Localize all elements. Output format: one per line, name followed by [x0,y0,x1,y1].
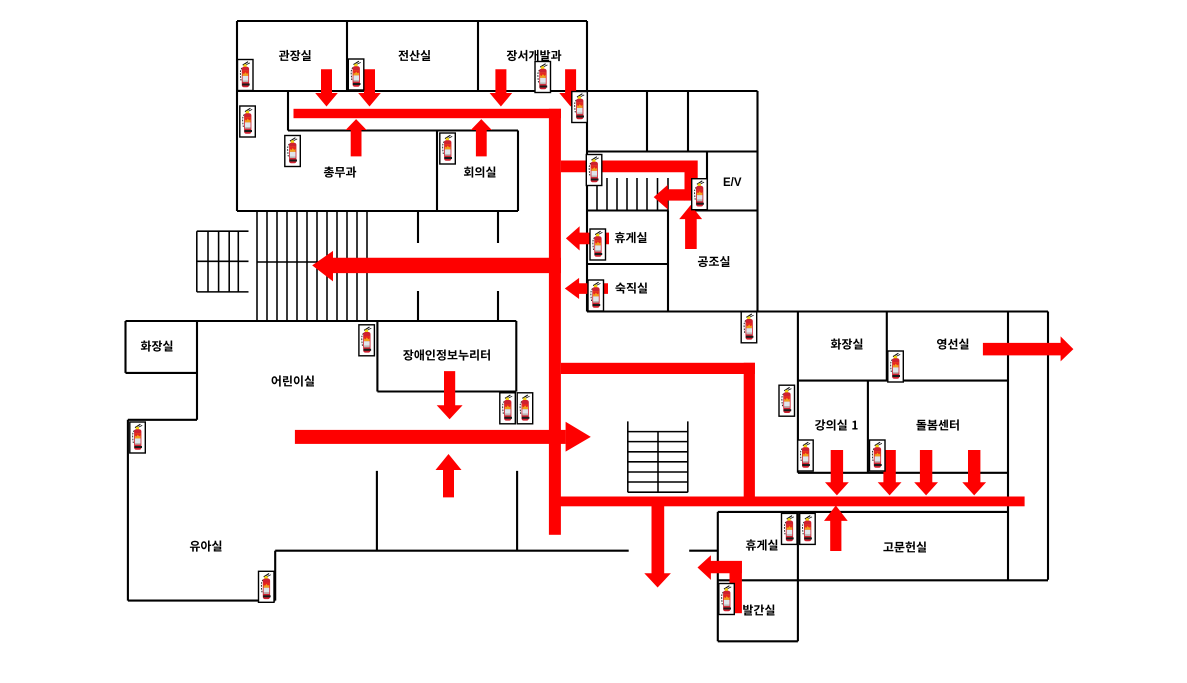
extinguisher 관장실 [238,60,254,91]
extinguisher 전산실 [348,59,364,90]
extinguisher 휴게실 E/V block [590,229,606,260]
wall: 장애인정보누리터 left edge [376,321,378,392]
arrow up from 공조실 to E/V [679,205,702,249]
wall: 화장실 right edge x=197 [196,321,198,420]
extinguisher 숙직실 [588,280,604,311]
arrow down from 장애인정보누리터 [437,371,463,419]
route: upper-right branch bar [561,363,755,374]
route: E/V corridor bar with down leg [561,161,698,201]
route: top corridor bar [294,109,562,118]
arrow down from 장서개발과 right [559,69,582,106]
route: right branch down leg [744,363,755,506]
arrow down from 관장실 [315,69,338,106]
arrow down central exit [644,506,671,588]
extinguisher 총무과 [285,136,301,167]
room label 총무과 [324,166,356,177]
extinguisher 유아실 west [130,422,146,453]
wall: 휴게실/공조실 divider x=668 [667,211,669,312]
extinguisher E/V corridor west [586,155,602,186]
room label 화장실 [831,339,863,350]
wall: E/V block right edge x=757.5 [756,91,758,312]
route: main vertical corridor [549,109,561,535]
wall: divider 전산실/장서개발과 [477,21,479,91]
extinguisher 화장실/영선실 [888,351,904,382]
extinguisher 공조실 bottom [741,312,757,343]
arrow left into E/V staircase [654,185,685,210]
wall: 유아실 bottom y=600.6 [128,600,275,602]
room label 장서개발과 [507,50,562,61]
extinguisher corridor right of top block [572,92,588,123]
wall: 총무과 block left edge [236,91,238,211]
wall: 유아실 right step x=275.2 [274,551,276,601]
extinguisher 휴게실 bottom pair B [800,513,816,544]
room label 돌봄센터 [916,419,958,430]
svg-text:E/V: E/V [723,177,742,189]
wall: 화장실 bottom [126,372,198,374]
wall: 발간실 bottom [718,640,798,642]
stairs: central staircase verticals [628,421,688,492]
wall: 화장실 left edge [124,321,126,373]
arrow big left to main staircase [312,251,561,281]
wall: corridor corner vertical x=288 [287,91,289,131]
arrow up from 총무과 [346,119,367,156]
wall: door stub below 회의실 upper right [497,211,499,243]
extinguisher corridor pair A [500,393,516,424]
wall: divider 관장실/전산실 [346,21,348,91]
arrow up from 고문헌실 [824,505,848,551]
wall: divider 총무과/회의실 [436,131,438,212]
room label 영선실 [937,339,969,350]
room label 장애인정보누리터 [403,349,490,360]
room label 전산실 [398,50,430,61]
extinguisher 총무과 upper-left strip [240,106,256,137]
arrow down from 장서개발과 left [490,69,513,106]
room label 휴게실 [615,232,647,243]
extinguisher 발간실 [719,584,735,615]
route: lower corridor bar [549,497,1025,507]
wall: right lower block left edge x=797.9 upper [797,312,799,473]
arrow down from 돌봄센터 3 [962,450,986,495]
wall: stub x=376.9 [376,471,378,551]
room label 회의실 [464,166,496,177]
wall: 어린이실 top y=321 [126,320,517,322]
room label 강의실 1 [815,419,858,430]
extinguisher 회의실 [440,133,456,164]
route: 발간실 up leg [730,561,742,613]
wall: long bottom of middle blocks y=311.5 [587,310,1048,312]
wall: top room block outline (관장실/전산실/장서개발과) [237,21,587,91]
wall: small room divider 1 [646,91,648,152]
wall: E/V block left edge x=587 [586,91,588,312]
wall: 강의실/돌봄센터 divider [867,381,869,473]
wall: 회의실 right edge [517,131,519,212]
stairs: left small staircase verticals [197,231,239,292]
room label 고문헌실 [883,541,926,552]
extinguisher corridor pair B [517,393,533,424]
wall: door stub above 어린이실 right [497,291,499,321]
room label 숙직실 [615,282,647,293]
wall: 장애인정보누리터 right edge [515,321,517,392]
extinguisher 돌봄센터 [870,440,886,471]
wall: stairs bottom / E/V bottom y=210.5 with door gap [587,209,758,211]
stairs: central staircase treads [628,432,688,493]
room label 발간실 [743,605,774,616]
arrow exit right from 영선실 [983,336,1074,361]
wall: 고문헌실 bottom y=580 [718,579,1048,581]
wall: corridor south wall y=550.7 with door gap [275,550,718,552]
route: central corridor bar [295,430,566,444]
wall: 휴게실/고문헌실 top y=511.9 [718,511,1008,513]
stairs: E/V block staircase treads [587,178,668,211]
room label 관장실 [279,50,311,61]
arrow left from 휴게실 to corridor [566,226,609,250]
arrow down from 강의실1 [825,450,849,495]
wall: E/V room left edge [706,152,708,211]
wall: small rooms bottom y=151.5 [587,150,758,152]
extinguisher 강의실1 west [779,385,795,416]
stairs: main staircase mid landing line [257,261,367,263]
wall: 휴게실 left edge x=717.8 [717,512,719,641]
wall: 강의실/돌봄센터 bottom y=472.8 [798,472,1008,474]
arrow down from 전산실 [358,69,381,106]
extinguisher 유아실 [259,571,275,602]
wall: 유아실 left edge x=127.9 [127,420,129,601]
room label 어린이실 [272,375,314,386]
wall: 화장실/영선실 divider [886,312,888,381]
room label 유아실 [190,541,222,552]
arrow right head of central corridor [566,422,591,452]
wall: 총무과/회의실 top wall y=130.5 [288,129,518,131]
wall: 총무과 block bottom y=211 [237,210,518,212]
wall: far right wall x=1048 [1047,312,1049,580]
arrow up from 회의실 [471,119,492,156]
arrow down from 돌봄센터 2 [914,450,938,495]
room label 휴게실 [746,539,778,550]
extinguisher 어린이실 [359,325,375,356]
room label 공조실 [698,256,730,267]
wall: 휴게실/고문헌실 divider x=797.9 [797,512,799,641]
stairs: left small staircase horizontals [197,231,249,292]
arrow down from 돌봄센터 1 [878,450,902,495]
wall: 화장실/영선실 bottom y=380.6 [798,380,1008,382]
wall: step wall y=419.8 [128,419,197,421]
arrow left from 숙직실 to corridor [565,278,608,299]
extinguisher 휴게실 bottom pair A [782,513,798,544]
stairs: main staircase vertical treads [257,212,367,321]
arrow left into 휴게실 bottom [698,555,742,580]
extinguisher 강의실1 [798,440,814,471]
extinguisher 장서개발과 [535,62,551,93]
room label 화장실 [141,341,173,352]
wall: long horizontal under top rooms y=91 [237,90,758,92]
wall: stub x=517.1 [516,471,518,551]
wall: right column wall x=1008 [1007,312,1009,580]
wall: 휴게실/숙직실 divider y=264 [587,263,668,265]
wall: small room divider 2 [687,91,689,152]
wall: door stub below 총무과 upper left [417,211,419,243]
wall: door stub above 어린이실 left [417,291,419,321]
wall: 장애인정보누리터 bottom [377,390,516,392]
arrow up below central corridor [436,454,462,497]
extinguisher E/V [692,179,708,210]
